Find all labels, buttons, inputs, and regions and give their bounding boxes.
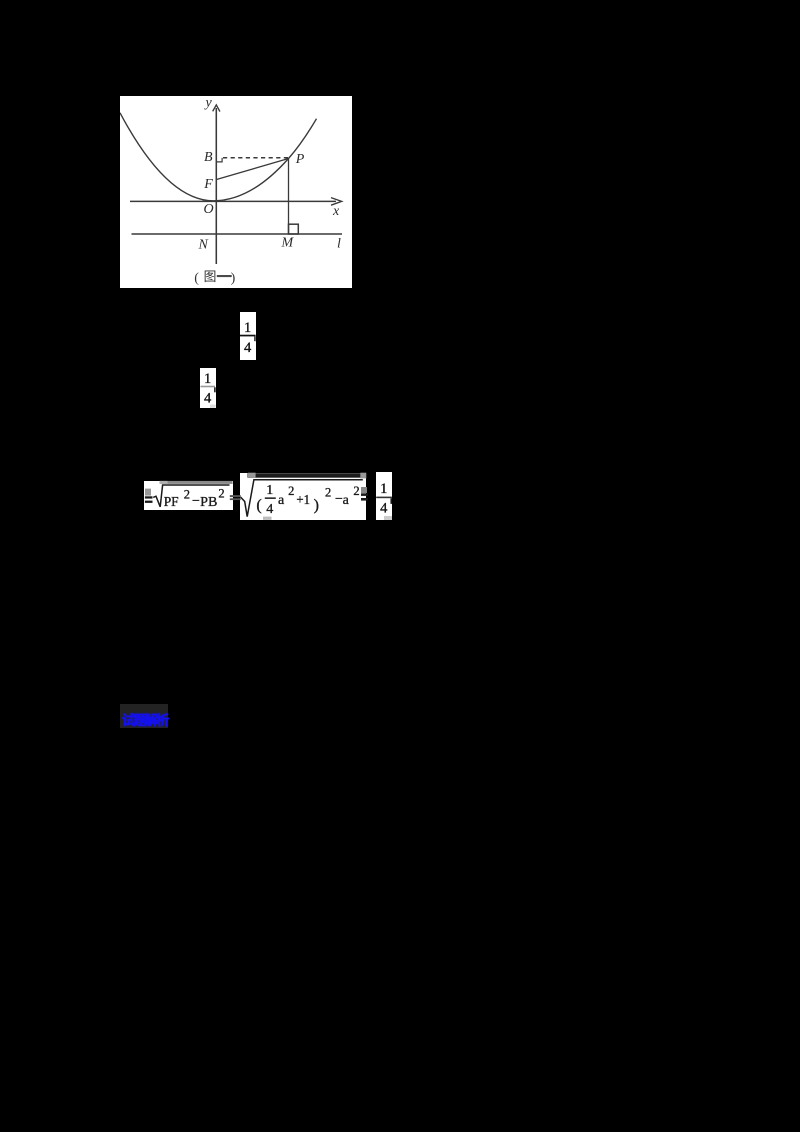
directrix l: [131, 233, 342, 235]
svg-text:−: −: [192, 494, 200, 509]
svg-text:): ): [230, 270, 235, 285]
vertical P to M: [287, 158, 289, 234]
fraction image 1/4 (second): [200, 368, 216, 408]
svg-text:2: 2: [325, 486, 331, 500]
svg-text:1: 1: [266, 483, 273, 498]
blue bold text on dark block: [120, 704, 168, 728]
svg-text:N: N: [197, 237, 208, 252]
svg-text:1: 1: [244, 320, 251, 336]
box2 top dark band with gray caps: [248, 473, 361, 478]
box2 trailing bold equals: [361, 487, 367, 493]
figure image: parabola diagram (图一): [120, 96, 353, 288]
box2 radical: [241, 480, 363, 517]
right-angle mark at B: [216, 157, 222, 161]
svg-text:4: 4: [204, 391, 212, 407]
box1 radical: [153, 485, 229, 507]
svg-text:a: a: [343, 493, 350, 508]
parabola: [120, 112, 317, 200]
box1 leading bold =: [145, 489, 151, 496]
box2 bottom gray marks: [263, 517, 272, 520]
formula box 2: sqrt((1/4 a^2+1)^2-a^2): [240, 473, 366, 520]
svg-text:a: a: [278, 493, 285, 508]
svg-text:y: y: [203, 96, 212, 111]
svg-text:图: 图: [203, 270, 216, 284]
svg-text:1: 1: [380, 481, 387, 497]
dashed line B to P: [223, 156, 289, 158]
svg-text:M: M: [280, 235, 294, 250]
box1 gray top strip: [160, 481, 233, 484]
svg-text:(: (: [194, 270, 199, 285]
svg-text:(: (: [256, 497, 261, 514]
fraction image 1/4 (first): [240, 312, 256, 360]
svg-text:1: 1: [204, 371, 211, 387]
svg-text:PF: PF: [164, 495, 179, 510]
svg-text:PB: PB: [200, 495, 217, 510]
svg-text:4: 4: [380, 501, 388, 517]
formula box 3: 1/4: [376, 472, 392, 520]
y-axis: [215, 108, 217, 264]
svg-text:+1: +1: [296, 492, 310, 507]
svg-text:): ): [314, 497, 319, 514]
svg-text:4: 4: [266, 502, 273, 517]
svg-text:l: l: [337, 236, 341, 251]
svg-text:x: x: [332, 204, 340, 219]
chord F to P: [216, 158, 288, 179]
svg-text:P: P: [294, 152, 304, 167]
formula box 1: sqrt(PF^2-PB^2): [144, 481, 233, 510]
svg-text:F: F: [203, 177, 213, 192]
equals between box1 and box2: [230, 495, 241, 497]
svg-text:2: 2: [288, 484, 294, 498]
svg-text:O: O: [203, 202, 213, 217]
formula strip overlay svg: [140, 465, 400, 527]
svg-text:2: 2: [184, 488, 190, 502]
svg-text:2: 2: [353, 484, 359, 498]
x-axis: [130, 200, 336, 202]
svg-text:B: B: [204, 149, 213, 164]
right-angle square at M: [288, 224, 298, 234]
svg-text:4: 4: [244, 340, 252, 356]
svg-text:2: 2: [218, 486, 224, 500]
